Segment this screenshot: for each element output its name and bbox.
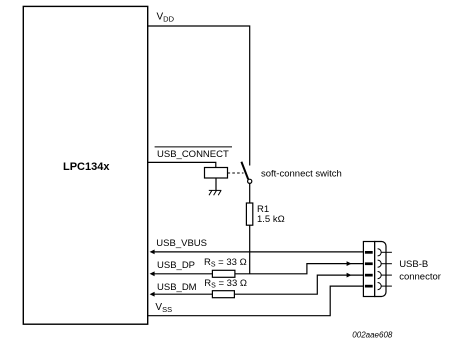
figure id 002aae608	[352, 330, 393, 339]
dashed control line	[228, 172, 244, 174]
resistor RS (USB_DM)	[212, 291, 234, 298]
pin label USB_DM	[157, 282, 197, 293]
connector pin 3 (D-)	[365, 272, 392, 279]
IC U1 LPC134x	[23, 6, 147, 324]
pin label VDD	[157, 12, 175, 24]
label R1 1.5 kOhm	[257, 204, 285, 225]
wire USB_DP (right)	[235, 261, 364, 274]
svg-text:1.5 kΩ: 1.5 kΩ	[257, 214, 285, 225]
svg-text:USB_VBUS: USB_VBUS	[156, 238, 207, 249]
resistor RS (USB_DP)	[212, 270, 235, 277]
svg-text:connector: connector	[399, 272, 441, 283]
wire VDD	[148, 26, 250, 166]
soft-connect switch SW	[241, 162, 251, 184]
label RS = 33 Ohm (DM)	[204, 278, 247, 290]
svg-text:RS = 33 Ω: RS = 33 Ω	[204, 257, 247, 269]
resistor R1	[246, 203, 252, 225]
wire VSS	[148, 286, 364, 316]
connector pin 4 (GND)	[365, 283, 392, 290]
svg-text:002aae608: 002aae608	[352, 330, 393, 339]
wire R1 to USB_DP node	[249, 225, 251, 274]
pin label USB_DP	[157, 260, 195, 271]
svg-text:soft-connect switch: soft-connect switch	[261, 168, 342, 179]
switch driver block	[205, 168, 228, 179]
ground	[209, 190, 222, 195]
pin label USB_VBUS	[156, 238, 207, 249]
svg-text:USB-B: USB-B	[399, 259, 428, 270]
wire USB_VBUS	[150, 250, 364, 255]
wire switch to R1	[249, 184, 251, 204]
wire driver to ground	[215, 178, 217, 190]
svg-text:USB_CONNECT: USB_CONNECT	[157, 149, 229, 160]
label soft-connect switch	[261, 168, 342, 179]
svg-text:LPC134x: LPC134x	[63, 161, 110, 173]
label USB-B connector	[399, 259, 441, 283]
connector J1 USB-B body	[363, 242, 386, 297]
wire USB_DP (left)	[150, 271, 213, 276]
pin label VSS	[155, 302, 172, 314]
svg-text:USB_DP: USB_DP	[157, 260, 195, 271]
svg-text:RS = 33 Ω: RS = 33 Ω	[204, 278, 247, 290]
wire USB_CONNECT	[148, 162, 216, 167]
connector pin 2 (D+)	[365, 260, 392, 267]
svg-text:USB_DM: USB_DM	[157, 282, 197, 293]
connector pin 1 (VBUS)	[365, 249, 392, 256]
pin label USB_CONNECT (with overline)	[155, 147, 232, 160]
label RS = 33 Ohm (DP)	[204, 257, 247, 269]
wire USB_DM (right)	[234, 273, 363, 295]
wire USB_DM (left)	[150, 292, 213, 297]
